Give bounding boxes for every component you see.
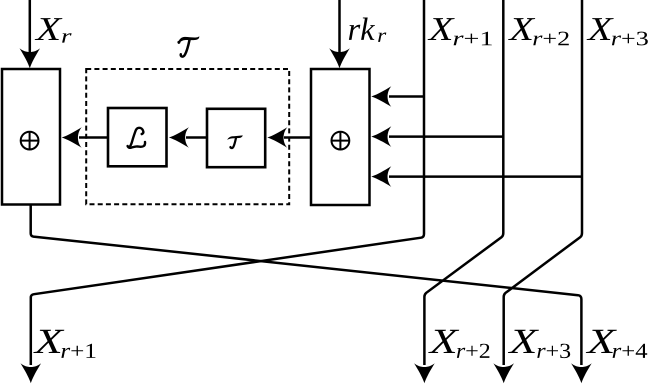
left XOR box [2,69,60,205]
wire right XOR to tau box [284,136,311,139]
arrowhead into right XOR top [329,48,350,68]
arrowhead into L box [169,127,189,148]
arrowhead into left XOR top [20,48,41,68]
node X_r+3 top vertical, diagonal down-left [504,0,582,365]
wire rk_r input [338,0,341,52]
node X_r+2 top vertical, diagonal down-left [424,0,503,365]
L box [108,108,167,166]
arrowhead bottom X_r+4 [571,363,592,383]
label tau in tau box [227,135,243,148]
arrowhead X_r+2 tap [371,126,391,147]
node X_r+1 top vertical, crossing diagonal to bottom-left [31,0,424,365]
wire X_r+1 tap into right XOR [389,95,424,98]
right XOR box [311,69,370,205]
wire L box to left XOR [79,136,108,139]
label X_r+2 top [508,18,569,45]
label rk_r [349,18,386,42]
label X_r+1 top [428,18,492,45]
label X_r+3 top [587,18,648,45]
arrowhead bottom X_r+1 [21,363,42,383]
label X_r+2 bottom [428,330,489,358]
dashed T box [86,69,289,204]
label script L in L box [128,128,145,148]
label X_r [35,18,72,42]
XOR symbol right [332,132,350,150]
XOR symbol left [21,132,39,150]
wire left XOR output to bottom-right X_r+4 [31,204,582,365]
wire X_r input [29,0,32,52]
label X_r+1 bottom [33,330,95,358]
arrowhead bottom X_r+2 [414,363,435,383]
wire X_r+3 tap into right XOR [389,175,582,178]
label X_r+4 bottom [586,330,647,358]
arrowhead bottom X_r+3 [493,363,514,383]
arrowhead into tau box [267,127,287,148]
wire tau box to L box [186,136,207,139]
label script T above dashed box [177,36,199,44]
arrowhead X_r+1 tap [371,86,391,107]
tau box [207,109,265,167]
arrowhead into left XOR right side [62,127,82,148]
wire X_r+2 tap into right XOR [389,135,503,138]
label X_r+3 bottom [508,330,570,358]
arrowhead X_r+3 tap [371,166,391,187]
